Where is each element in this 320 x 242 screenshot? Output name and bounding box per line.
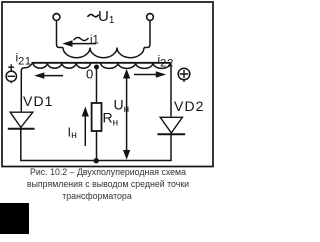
node dot bottom junction — [94, 158, 99, 163]
node dot center tap — [94, 65, 99, 70]
tilde of i1 label — [74, 38, 89, 41]
terminal left (top) — [53, 14, 60, 21]
arrow i1 (points left) — [34, 40, 166, 163]
terminal minus circle left — [6, 71, 16, 81]
minus sign inside left terminal — [8, 75, 15, 77]
svg-text:0: 0 — [86, 67, 93, 82]
stub below left terminal — [10, 82, 12, 84]
diode VD2 cathode bar — [157, 133, 185, 135]
arrow i22 (points right) — [134, 74, 158, 76]
node center tap wire down — [96, 66, 98, 103]
terminal right (top) — [147, 14, 154, 21]
wire secondary left corner down to VD1 — [21, 63, 33, 112]
inductor L2 secondary winding line — [32, 62, 171, 64]
stub above left terminal — [10, 70, 12, 72]
tilde of U1 label — [88, 14, 99, 16]
diode VD1 triangle — [10, 112, 33, 127]
plus sign above left terminal — [8, 64, 14, 70]
caption line 3 — [0, 191, 205, 201]
svg-text:VD2: VD2 — [174, 98, 205, 114]
terminal plus circle right — [178, 68, 190, 80]
svg-text:U1: U1 — [98, 8, 115, 26]
caption line 1 — [0, 167, 216, 177]
caption line 2 — [0, 179, 216, 189]
arrow UH double vertical — [126, 76, 128, 153]
secondary winding arcs right half — [101, 63, 171, 69]
figure border frame — [2, 2, 213, 167]
inductor L1 primary winding — [63, 48, 144, 58]
resistor RH box — [92, 103, 102, 131]
svg-text:i1: i1 — [90, 35, 99, 47]
black rectangle bottom-left — [0, 203, 29, 234]
wire RH bottom lead — [96, 131, 98, 161]
wire bottom rail — [21, 130, 171, 161]
secondary winding arcs left half — [33, 63, 91, 68]
arrow i21 (points left) — [42, 75, 63, 77]
svg-text:VD1: VD1 — [23, 93, 54, 109]
stub below right terminal — [183, 80, 185, 82]
diode VD1 cathode bar — [8, 128, 35, 130]
diode VD2 triangle — [160, 117, 182, 133]
wire secondary right corner down to VD2 — [170, 63, 173, 117]
svg-text:i22: i22 — [158, 53, 175, 70]
plus sign inside right terminal — [180, 70, 188, 78]
svg-text:i21: i21 — [16, 51, 32, 68]
wire right primary lead — [144, 20, 150, 47]
svg-text:Iн: Iн — [68, 125, 78, 142]
wire left primary lead — [57, 20, 64, 47]
arrow IH (points up) — [84, 114, 86, 146]
